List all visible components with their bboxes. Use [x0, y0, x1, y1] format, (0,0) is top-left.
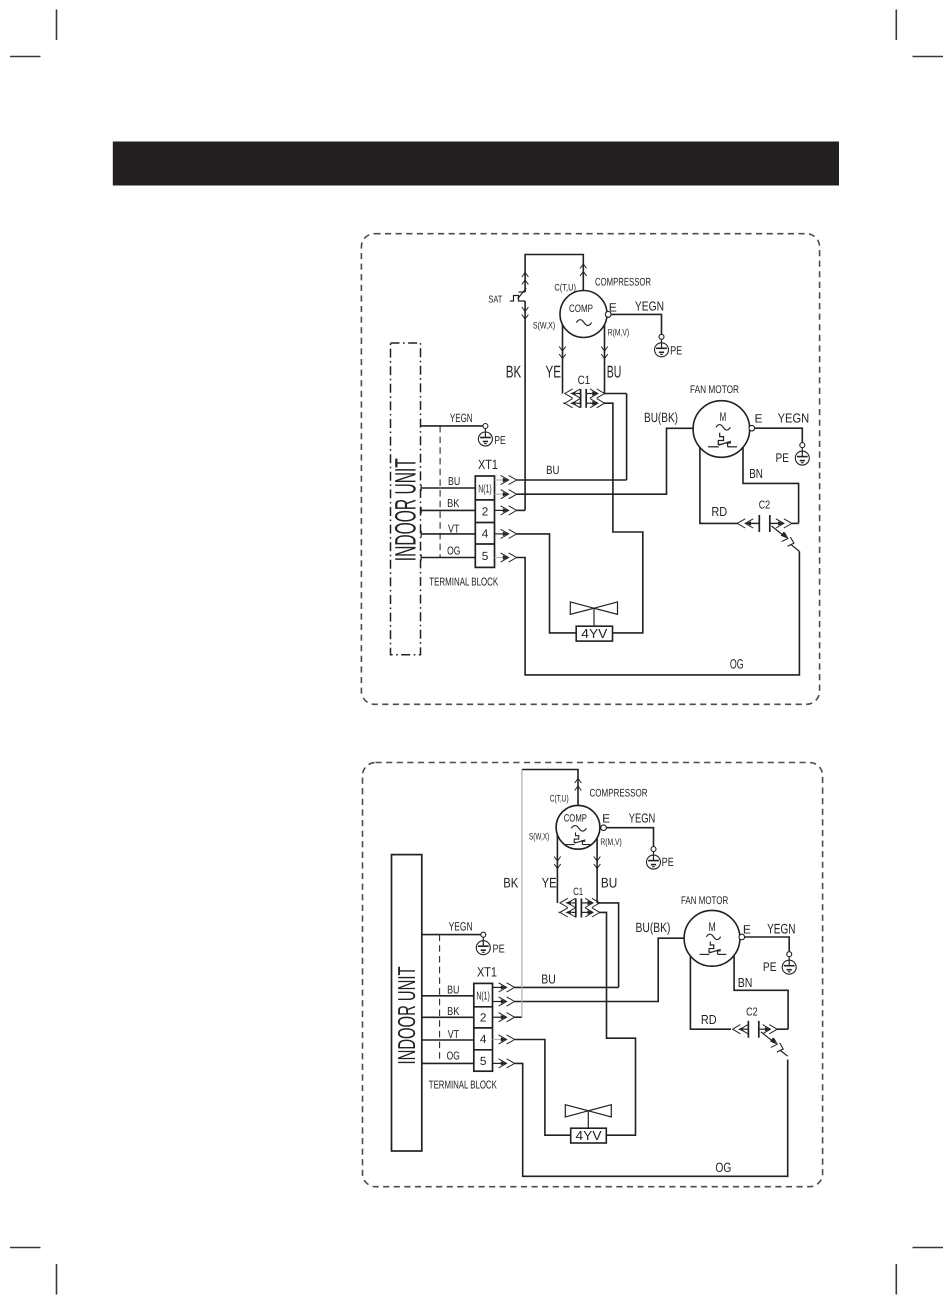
- svg-text:YEGN: YEGN: [767, 921, 795, 937]
- wire OG indoor to XT1: [421, 557, 476, 559]
- svg-text:FAN MOTOR: FAN MOTOR: [690, 384, 739, 396]
- dashed cable line: [439, 935, 441, 1064]
- svg-text:BU: BU: [607, 363, 622, 382]
- svg-text:BU: BU: [447, 984, 459, 996]
- wire VT indoor to XT1: [421, 533, 476, 535]
- sine symbol fan: [716, 425, 730, 431]
- svg-text:2: 2: [482, 504, 489, 518]
- wire fan right leg BN: [743, 447, 799, 523]
- svg-text:RD: RD: [701, 1012, 717, 1027]
- svg-text:BU: BU: [546, 463, 559, 477]
- chevrons down below SAT: [522, 307, 529, 319]
- ground PE (comp 2): [647, 847, 661, 870]
- fan motor M2 circle: [684, 910, 740, 966]
- wire BU indoor to XT1: [422, 995, 474, 997]
- overload protector SAT: [510, 288, 526, 301]
- wire E to PE (fan): [755, 428, 803, 442]
- svg-text:C1: C1: [578, 373, 591, 387]
- crop mark top-left: [10, 10, 57, 57]
- diagram 1 dashed border: [361, 234, 819, 705]
- svg-text:XT1: XT1: [477, 965, 497, 980]
- wire BU row1 to C1: [517, 479, 627, 481]
- svg-text:BU: BU: [601, 874, 617, 890]
- ground PE (fan): [795, 443, 809, 466]
- wire E to PE (comp 2): [606, 828, 653, 847]
- svg-text:BU(BK): BU(BK): [636, 920, 671, 935]
- svg-text:C(T,U): C(T,U): [554, 282, 576, 293]
- wire VT indoor to XT1: [422, 1039, 474, 1041]
- svg-text:OG: OG: [447, 545, 460, 557]
- svg-text:C(T,U): C(T,U): [550, 794, 569, 805]
- terminal block XT1: [475, 476, 494, 567]
- svg-text:COMPRESSOR: COMPRESSOR: [595, 277, 651, 289]
- wire E to PE: [611, 314, 661, 334]
- chevrons up on BK riser: [522, 273, 529, 285]
- chevrons up on C(T,U) lead (2): [575, 779, 582, 791]
- terminal E circle: [605, 312, 611, 318]
- sine symbol comp (2): [571, 826, 586, 832]
- svg-text:BU: BU: [541, 972, 556, 987]
- svg-text:BK: BK: [447, 498, 460, 510]
- wire fan left leg RD (2): [690, 956, 731, 1029]
- svg-text:N(1): N(1): [478, 484, 492, 496]
- svg-text:R(M,V): R(M,V): [600, 837, 621, 848]
- connector row5 (5): [493, 1059, 515, 1068]
- ground PE (indoor): [478, 424, 492, 447]
- svg-text:E: E: [602, 811, 610, 825]
- wire BU row1 to C1 riser: [515, 986, 619, 988]
- connector row3 (2): [495, 506, 517, 515]
- svg-text:SAT: SAT: [488, 294, 502, 305]
- sine symbol fan (2): [706, 934, 720, 940]
- svg-text:BK: BK: [447, 1006, 460, 1018]
- C2 right connector (2): [759, 1025, 788, 1034]
- capacitor C1 plates: [580, 389, 582, 408]
- svg-text:COMP: COMP: [564, 813, 587, 825]
- wire BU leg (2): [596, 838, 598, 903]
- svg-text:PE: PE: [763, 960, 777, 974]
- connector row2 (N1 bottom): [493, 997, 515, 1006]
- connector row4 (4): [493, 1035, 515, 1044]
- svg-text:VT: VT: [448, 524, 459, 536]
- 4YV valve bowtie: [570, 602, 617, 626]
- svg-text:R(M,V): R(M,V): [608, 327, 629, 338]
- connector row2 (N1 bottom): [495, 490, 517, 499]
- capacitor C2 plates (2): [747, 1021, 749, 1038]
- thermal protector (fan): [708, 433, 737, 447]
- ground PE (fan 2): [782, 952, 796, 975]
- svg-text:5: 5: [480, 1054, 487, 1068]
- svg-text:BU(BK): BU(BK): [644, 410, 678, 425]
- wire YEGN from indoor unit to PE: [422, 934, 481, 936]
- C1 row2 right connector + wire to 4YV: [586, 399, 643, 633]
- crop mark top-right: [896, 10, 943, 57]
- svg-text:C2: C2: [759, 500, 771, 512]
- svg-text:M: M: [720, 410, 727, 424]
- svg-text:COMPRESSOR: COMPRESSOR: [590, 788, 648, 800]
- sine symbol comp: [576, 320, 591, 326]
- svg-text:OG: OG: [447, 1051, 460, 1063]
- svg-text:C2: C2: [746, 1006, 758, 1018]
- svg-text:4: 4: [482, 527, 489, 541]
- wire BK indoor to XT1: [421, 509, 476, 511]
- wire BK riser: [524, 301, 526, 510]
- svg-text:INDOOR UNIT: INDOOR UNIT: [394, 966, 421, 1064]
- terminal E circle (2): [601, 825, 607, 831]
- compressor U2 circle: [556, 805, 600, 849]
- svg-text:TERMINAL BLOCK: TERMINAL BLOCK: [429, 576, 498, 588]
- 4YV coil box (2): [571, 1128, 607, 1143]
- svg-text:OG: OG: [715, 1160, 731, 1175]
- svg-text:N(1): N(1): [476, 991, 490, 1003]
- svg-text:E: E: [609, 301, 617, 315]
- svg-text:BN: BN: [738, 975, 753, 990]
- svg-text:YEGN: YEGN: [778, 410, 810, 425]
- fan motor M1 circle: [693, 401, 750, 458]
- C1 row2 left connector: [563, 399, 580, 408]
- svg-text:BK: BK: [506, 363, 522, 382]
- C1 row1 right connector (2): [581, 898, 618, 987]
- thermal protector (comp 2): [565, 832, 590, 844]
- wire YE leg: [562, 325, 564, 394]
- svg-text:YEGN: YEGN: [635, 298, 664, 313]
- crop mark bottom-left: [10, 1248, 57, 1295]
- svg-text:YEGN: YEGN: [629, 810, 656, 825]
- wire row4 to 4YV: [517, 534, 577, 633]
- C1 row1 right connector: [586, 389, 626, 398]
- svg-text:BU: BU: [448, 476, 460, 488]
- svg-text:4YV: 4YV: [576, 1128, 602, 1143]
- ground PE (indoor 2): [476, 932, 490, 955]
- header black bar: [113, 142, 839, 186]
- wire compressor top link: [525, 255, 583, 293]
- 4YV coil box: [576, 626, 612, 641]
- svg-text:FAN MOTOR: FAN MOTOR: [681, 895, 728, 907]
- svg-text:BN: BN: [749, 466, 763, 481]
- wire row4 to 4YV: [515, 1040, 571, 1136]
- crop mark bottom-right: [896, 1248, 943, 1295]
- terminal E circle (fan): [749, 425, 755, 431]
- C1 row1 left connector (2): [560, 898, 576, 907]
- C2 right connector: [770, 519, 799, 528]
- connector row3 (2): [493, 1013, 515, 1022]
- svg-text:C1: C1: [573, 886, 583, 898]
- ground PE (comp): [655, 334, 669, 357]
- svg-text:PE: PE: [776, 451, 790, 465]
- dashed cable line: [439, 426, 441, 558]
- gray BK riser: [521, 770, 523, 1018]
- svg-text:M: M: [709, 920, 716, 934]
- connector row4 (4): [495, 529, 517, 538]
- svg-text:INDOOR UNIT: INDOOR UNIT: [390, 458, 423, 561]
- svg-text:4YV: 4YV: [581, 626, 607, 641]
- svg-text:OG: OG: [730, 657, 744, 672]
- svg-text:S(W,X): S(W,X): [529, 831, 549, 842]
- wire BU(BK) row2 to fan motor: [515, 938, 685, 1001]
- svg-text:PE: PE: [670, 343, 682, 357]
- svg-text:2: 2: [480, 1011, 487, 1025]
- wire YE leg (2): [556, 835, 558, 903]
- wire row3 to gray riser: [515, 1016, 522, 1018]
- wire fan left leg RD: [700, 447, 738, 523]
- connector row5 (5): [495, 553, 517, 562]
- wire YEGN from indoor unit to PE: [421, 425, 484, 427]
- C2 plug arrow diagonal: [772, 526, 800, 551]
- svg-text:XT1: XT1: [478, 457, 498, 472]
- wire fan right leg BN (2): [734, 956, 788, 1030]
- svg-text:5: 5: [482, 549, 489, 563]
- wire OG row5 bottom run: [517, 551, 800, 675]
- svg-text:YEGN: YEGN: [449, 919, 473, 933]
- svg-text:4: 4: [480, 1032, 487, 1046]
- svg-text:VT: VT: [448, 1029, 459, 1041]
- capacitor C1 plates (2): [575, 898, 577, 917]
- svg-text:COMP: COMP: [569, 303, 593, 315]
- wire OG indoor to XT1: [422, 1062, 474, 1064]
- wire BU leg: [604, 325, 606, 394]
- connector row1 (N1 top): [493, 983, 515, 992]
- indoor unit box (dash-dot): [391, 343, 421, 655]
- wire BU(BK) row2 to fan motor: [517, 428, 694, 494]
- svg-text:RD: RD: [711, 504, 727, 519]
- svg-text:YEGN: YEGN: [450, 411, 473, 425]
- chevrons up on C(T,U) lead: [580, 264, 587, 276]
- terminal block XT1 (2): [474, 983, 493, 1071]
- capacitor C2 plates: [758, 515, 760, 532]
- svg-text:PE: PE: [494, 435, 506, 447]
- svg-text:S(W,X): S(W,X): [533, 321, 555, 332]
- wire row3 to BK riser: [517, 509, 526, 511]
- svg-text:YE: YE: [546, 363, 562, 382]
- svg-text:TERMINAL BLOCK: TERMINAL BLOCK: [429, 1080, 497, 1092]
- svg-text:YE: YE: [542, 874, 557, 890]
- C2 plug arrow diagonal (2): [761, 1032, 788, 1056]
- 4YV valve bowtie (2): [565, 1105, 611, 1129]
- svg-text:E: E: [755, 411, 763, 425]
- wire compressor top link (2): [522, 770, 578, 806]
- node: riser C1 top row: [626, 394, 628, 481]
- wire OG row5 bottom run: [515, 1060, 788, 1177]
- svg-text:E: E: [743, 923, 751, 937]
- svg-text:BK: BK: [503, 874, 519, 890]
- svg-text:PE: PE: [662, 855, 674, 869]
- svg-text:PE: PE: [493, 944, 506, 956]
- thermal protector (fan 2): [700, 942, 727, 955]
- compressor U1 circle: [560, 291, 607, 338]
- indoor unit box (solid): [392, 855, 422, 1151]
- C2 left connector: [737, 519, 759, 528]
- C1 row2 left connector (2): [559, 908, 576, 917]
- C2 left connector (2): [733, 1025, 749, 1034]
- diagram 2 dashed border: [363, 763, 823, 1187]
- wire BK indoor to XT1: [422, 1016, 474, 1018]
- connector row1 (N1 top): [495, 475, 517, 484]
- C1 row1 left connector: [565, 389, 581, 398]
- C1 row2 right connector + wire to 4YV (2): [581, 908, 635, 1135]
- wire BU indoor to XT1: [421, 487, 476, 489]
- wire E to PE (fan 2): [745, 937, 790, 951]
- terminal E circle (fan 2): [739, 934, 745, 940]
